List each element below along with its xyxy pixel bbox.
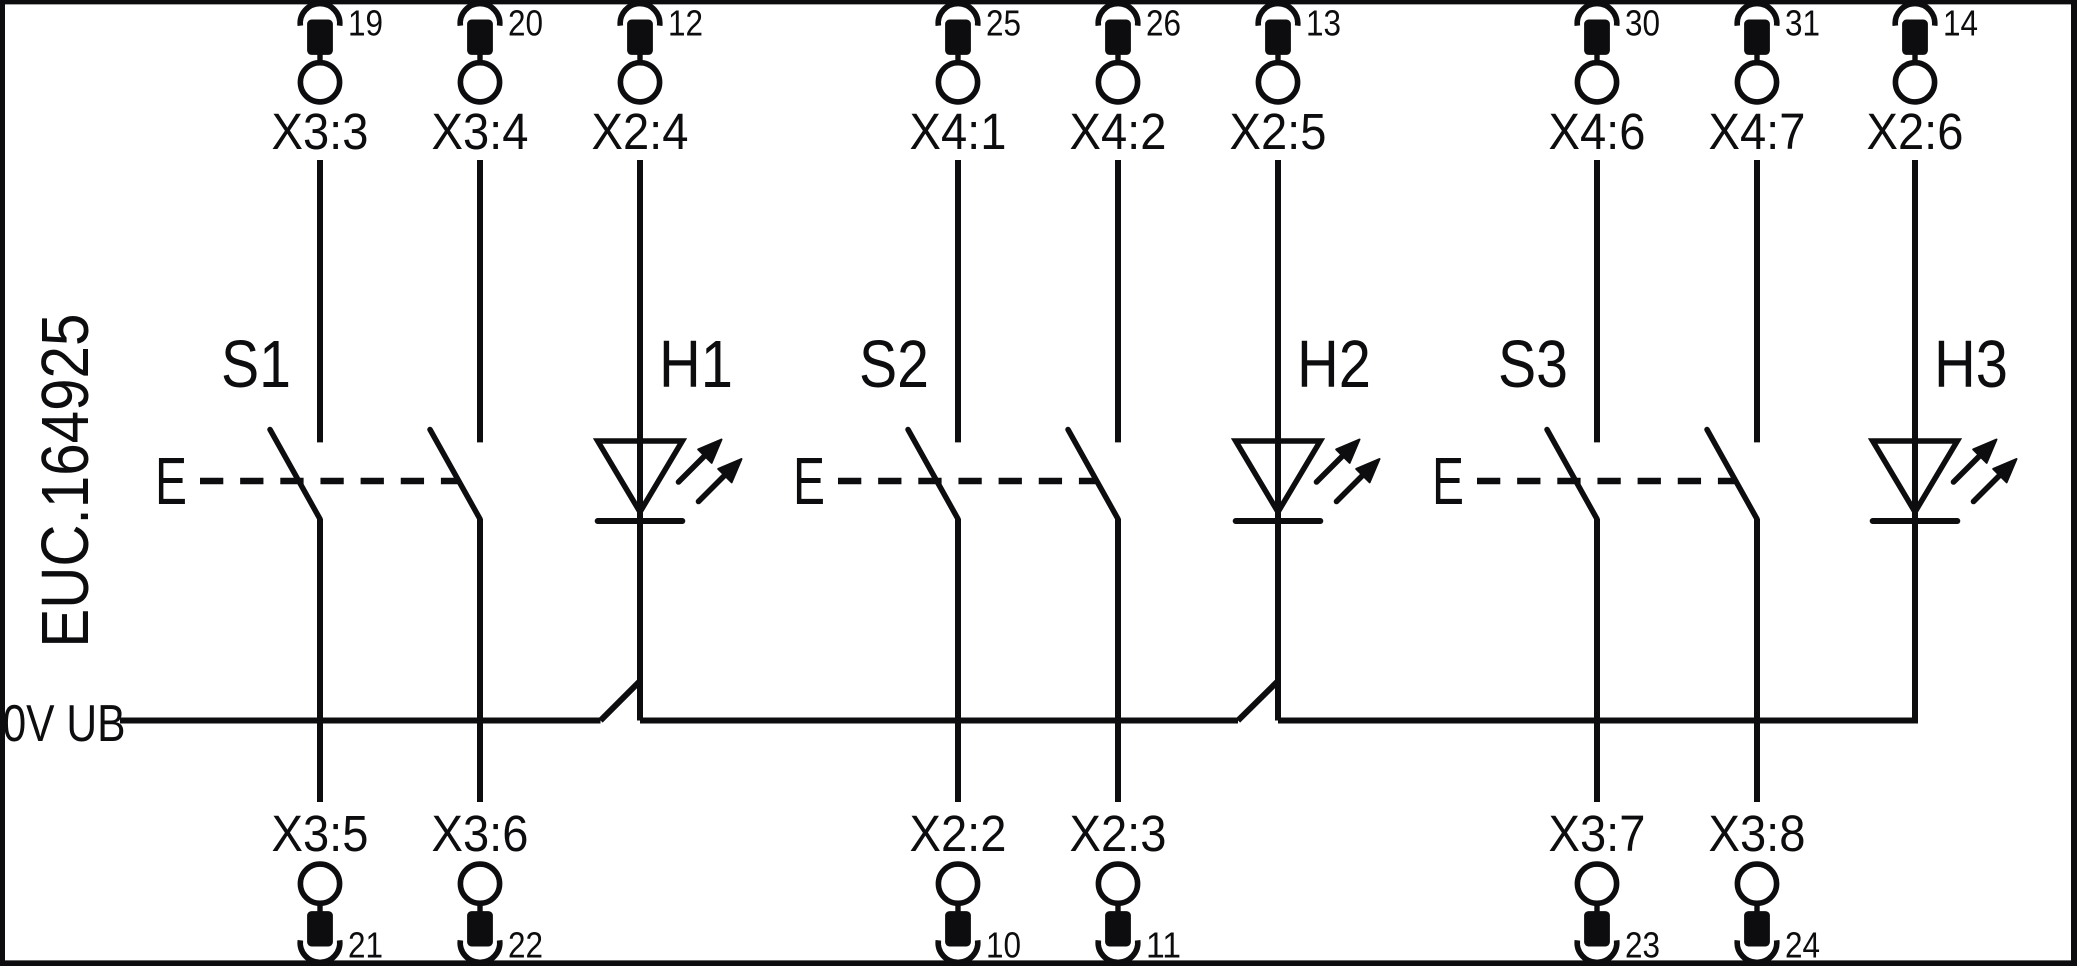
wire joint to H2 [1238,681,1278,721]
svg-text:S2: S2 [859,327,929,402]
svg-text:20: 20 [508,3,543,44]
svg-text:0V UB: 0V UB [3,695,126,753]
svg-text:31: 31 [1785,3,1820,44]
svg-text:X3:8: X3:8 [1709,805,1806,862]
svg-text:10: 10 [986,925,1021,966]
svg-text:S1: S1 [221,327,291,402]
terminal X2:6 (top) [1867,3,1979,160]
svg-text:S3: S3 [1498,327,1568,402]
terminal X3:7 (bottom) [1549,805,1661,966]
wire top terminal to LED at x=640 [637,160,643,524]
svg-text:13: 13 [1306,3,1341,44]
wire top terminal to switch at x=480 [477,160,483,442]
svg-text:X4:1: X4:1 [910,103,1007,160]
svg-text:X2:2: X2:2 [910,805,1007,862]
switch S2 contact blade 1 [908,430,958,520]
svg-text:12: 12 [668,3,703,44]
mechanical linkage (dashed) of S2 [838,478,1097,485]
svg-text:X3:5: X3:5 [272,805,369,862]
terminal X4:2 (top) [1070,3,1182,160]
svg-text:X4:6: X4:6 [1549,103,1646,160]
terminal X4:1 (top) [910,3,1022,160]
terminal X2:4 (top) [592,3,704,160]
wire 0V UB bus segment 3 [1278,718,1918,724]
wire top terminal to switch at x=320 [317,160,323,442]
wire LED cathode to 0V bus at x=640 [637,521,643,721]
svg-text:X2:3: X2:3 [1070,805,1167,862]
switch S1 contact blade 2 [430,430,480,520]
svg-text:X4:2: X4:2 [1070,103,1167,160]
wire switch to bottom terminal at x=1597 [1594,519,1600,802]
svg-text:E: E [155,444,187,519]
svg-text:H3: H3 [1934,327,2008,402]
svg-text:X3:7: X3:7 [1549,805,1646,862]
svg-text:22: 22 [508,925,543,966]
switch S2 contact blade 2 [1068,430,1118,520]
svg-text:30: 30 [1625,3,1660,44]
terminal X4:6 (top) [1549,3,1661,160]
svg-text:X2:6: X2:6 [1867,103,1964,160]
switch S3 contact blade 1 [1547,430,1597,520]
svg-text:24: 24 [1785,925,1820,966]
svg-text:21: 21 [348,925,383,966]
mechanical linkage (dashed) of S1 [200,478,459,485]
wire top terminal to LED at x=1915 [1912,160,1918,524]
LED H2 [1236,440,1380,522]
terminal X3:4 (top) [432,3,544,160]
svg-text:EUC.164925: EUC.164925 [29,314,103,648]
svg-text:X3:3: X3:3 [272,103,369,160]
svg-text:E: E [793,444,825,519]
wire top terminal to switch at x=958 [955,160,961,442]
wire switch to bottom terminal at x=320 [317,519,323,802]
wire top terminal to switch at x=1597 [1594,160,1600,442]
wire top terminal to LED at x=1278 [1275,160,1281,524]
svg-text:H1: H1 [659,327,733,402]
svg-text:X3:6: X3:6 [432,805,529,862]
terminal X3:5 (bottom) [272,805,384,966]
wire switch to bottom terminal at x=480 [477,519,483,802]
svg-text:X2:4: X2:4 [592,103,689,160]
mechanical linkage (dashed) of S3 [1477,478,1736,485]
terminal X2:5 (top) [1230,3,1342,160]
svg-text:14: 14 [1943,3,1978,44]
terminal X2:2 (bottom) [910,805,1022,966]
switch S3 contact blade 2 [1707,430,1757,520]
terminal X4:7 (top) [1709,3,1821,160]
terminal X2:3 (bottom) [1070,805,1182,966]
terminal X3:6 (bottom) [432,805,544,966]
svg-text:11: 11 [1146,925,1181,966]
wire LED cathode to 0V bus at x=1915 [1912,521,1918,721]
svg-text:X3:4: X3:4 [432,103,529,160]
LED H1 [598,440,742,522]
wire top terminal to switch at x=1757 [1754,160,1760,442]
svg-text:E: E [1432,444,1464,519]
svg-text:23: 23 [1625,925,1660,966]
terminal X3:3 (top) [272,3,384,160]
wire LED cathode to 0V bus at x=1278 [1275,521,1281,721]
wire 0V UB bus segment 1 [120,718,601,724]
wire switch to bottom terminal at x=958 [955,519,961,802]
wire 0V UB bus segment 2 [640,718,1238,724]
svg-text:26: 26 [1146,3,1181,44]
wire joint to H1 [601,681,641,721]
wire switch to bottom terminal at x=1757 [1754,519,1760,802]
LED H3 [1873,440,2017,522]
svg-text:19: 19 [348,3,383,44]
svg-text:H2: H2 [1297,327,1371,402]
switch S1 contact blade 1 [270,430,320,520]
svg-text:X4:7: X4:7 [1709,103,1806,160]
wire top terminal to switch at x=1118 [1115,160,1121,442]
wire switch to bottom terminal at x=1118 [1115,519,1121,802]
svg-text:25: 25 [986,3,1021,44]
terminal X3:8 (bottom) [1709,805,1821,966]
svg-text:X2:5: X2:5 [1230,103,1327,160]
